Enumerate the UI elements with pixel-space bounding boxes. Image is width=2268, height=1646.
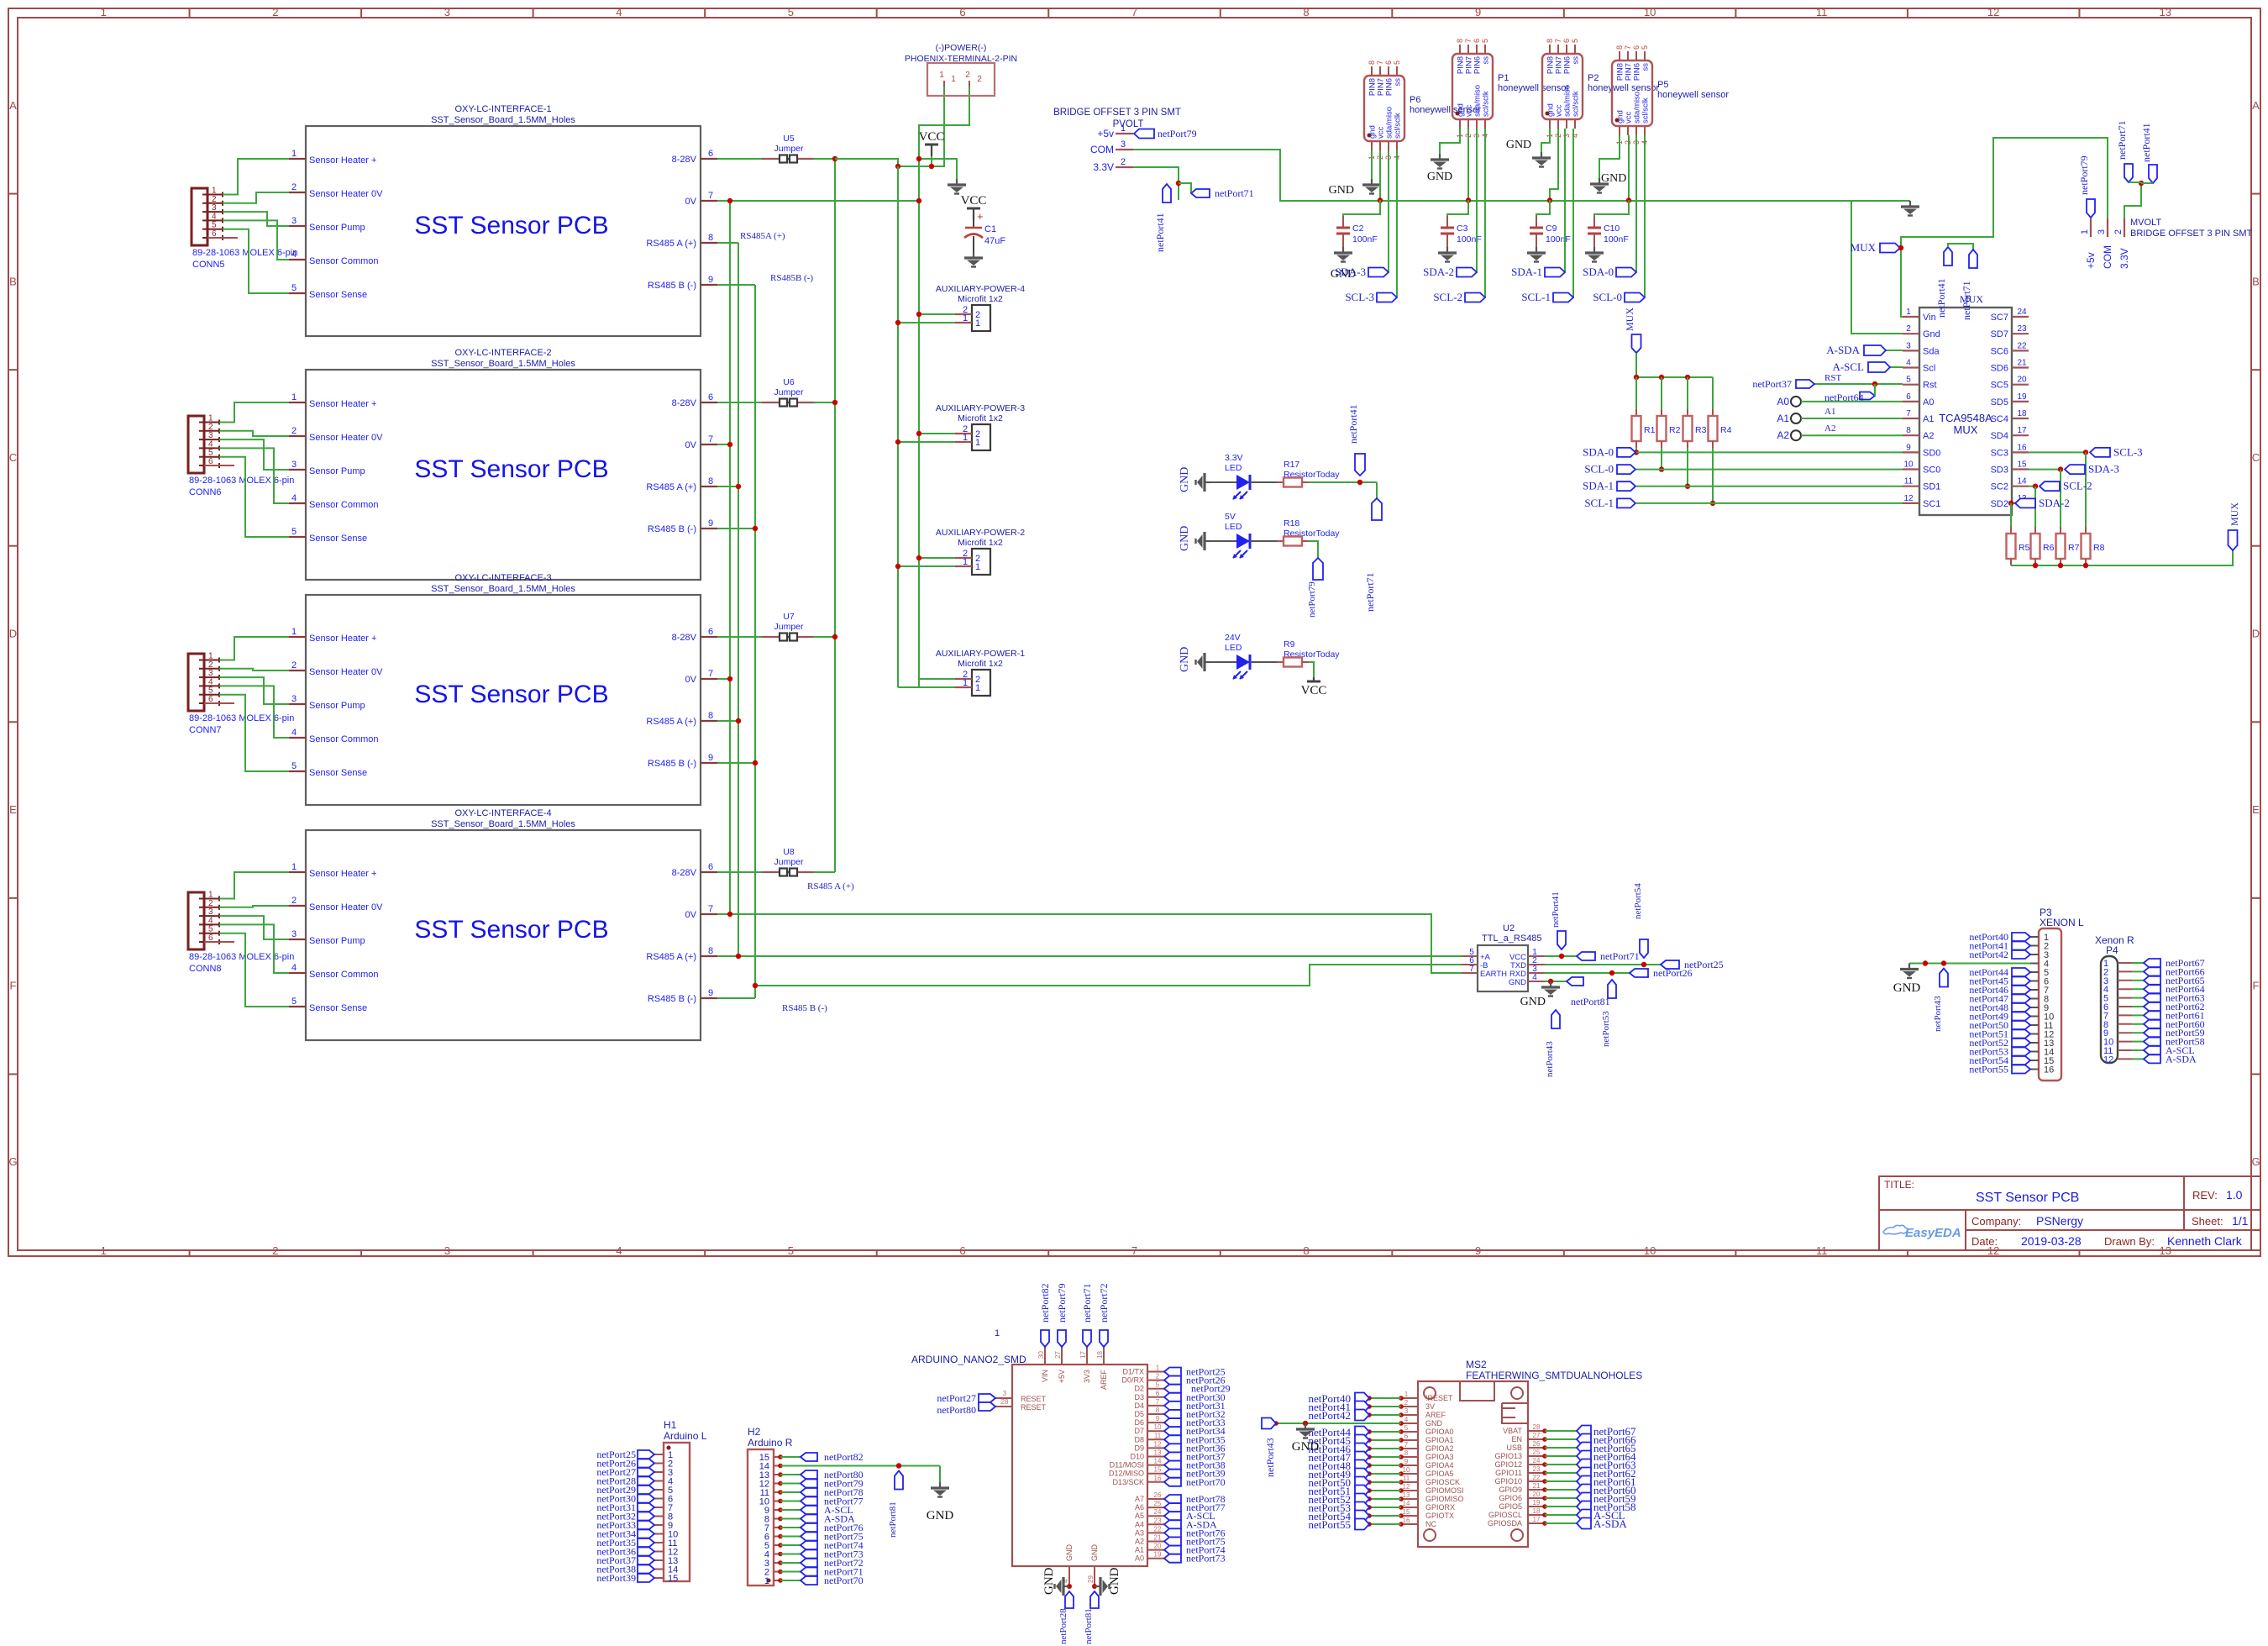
svg-text:5: 5	[788, 1244, 794, 1257]
svg-text:SD4: SD4	[1991, 431, 2008, 441]
net flag SCL-3	[1377, 293, 1397, 302]
H1 pin 12 netPort36	[654, 1551, 664, 1553]
svg-text:26: 26	[1533, 1440, 1541, 1448]
P3 pin 14	[2030, 1051, 2039, 1053]
featherwing pin 6 GPIOA1	[1401, 1439, 1418, 1441]
svg-text:7: 7	[708, 191, 713, 201]
wire P6 gnd	[1371, 150, 1373, 179]
svg-text:47uF: 47uF	[984, 236, 1005, 246]
svg-text:18: 18	[1533, 1507, 1541, 1515]
pin circle A0	[1791, 397, 1801, 407]
svg-text:6: 6	[708, 392, 713, 402]
ground nano 29	[1095, 1577, 1110, 1596]
junction RS485B SST2	[753, 526, 758, 531]
H2 pin 15	[774, 1456, 780, 1458]
svg-text:U7: U7	[783, 612, 795, 622]
svg-text:8: 8	[708, 233, 713, 243]
nano pin 6 D3	[1147, 1396, 1164, 1398]
pin 8 RS485 A (+)	[701, 955, 717, 957]
junction GND	[1548, 979, 1553, 984]
featherwing pin 18 GPIOSCL	[1528, 1514, 1545, 1516]
svg-text:6: 6	[708, 862, 713, 872]
svg-text:netPort81: netPort81	[888, 1501, 898, 1538]
svg-text:1/1: 1/1	[2232, 1214, 2249, 1228]
svg-text:GND: GND	[1329, 184, 1354, 197]
wire row SDA-1 to TCA	[1636, 486, 1903, 487]
connector CONN8 molex 6-pin	[188, 892, 204, 949]
svg-text:20: 20	[1533, 1491, 1541, 1498]
svg-text:netPort55: netPort55	[1308, 1518, 1351, 1531]
svg-text:23: 23	[1533, 1465, 1541, 1473]
svg-text:SST Sensor PCB: SST Sensor PCB	[1976, 1191, 2079, 1205]
wire RS485B SST3	[717, 762, 755, 764]
svg-text:SCL-1: SCL-1	[1521, 291, 1551, 303]
pin 6 8-28V	[701, 636, 717, 638]
svg-text:Sensor Heater +: Sensor Heater +	[309, 155, 376, 166]
net flag MUX feeding pullups	[1632, 334, 1641, 353]
svg-text:D: D	[2252, 628, 2260, 640]
wire cap C10 to rail	[1594, 200, 1629, 216]
H1 pin 13 netPort37	[654, 1559, 664, 1561]
U2 pin 4 GND	[1528, 981, 1545, 982]
wire P3 pin4 ground	[1909, 963, 2030, 965]
P3 pin 15	[2030, 1060, 2039, 1061]
P3 pin 7	[2030, 989, 2039, 991]
wire pulldown of SCL-0	[1661, 448, 1662, 470]
wire conn pin3 to Sensor Pump	[219, 677, 289, 704]
svg-text:Sensor Pump: Sensor Pump	[309, 466, 365, 476]
svg-text:SCL-2: SCL-2	[2063, 480, 2092, 492]
svg-text:A3: A3	[1135, 1528, 1144, 1537]
svg-text:Jumper: Jumper	[774, 622, 804, 632]
svg-text:2: 2	[272, 6, 278, 18]
wire VCC rail down to aux pins 1	[897, 166, 899, 687]
svg-text:A-SDA: A-SDA	[1826, 344, 1860, 356]
nano pin 8 D5	[1147, 1413, 1164, 1415]
P4 pin 2	[2118, 970, 2132, 972]
svg-text:RS485 A (+): RS485 A (+)	[646, 239, 696, 249]
svg-text:5: 5	[788, 6, 794, 18]
H1 pin 5 netPort29	[654, 1489, 664, 1491]
svg-text:89-28-1063 MOLEX 6-pin: 89-28-1063 MOLEX 6-pin	[192, 248, 297, 258]
svg-text:CONN8: CONN8	[189, 964, 222, 974]
svg-text:D11/MOSI: D11/MOSI	[1110, 1461, 1144, 1470]
svg-text:netPort41: netPort41	[1935, 278, 1947, 318]
svg-text:8-28V: 8-28V	[672, 868, 697, 878]
H2 pin 14	[774, 1465, 780, 1467]
nano pin 20 A1	[1147, 1549, 1164, 1551]
junction SCL-0	[1659, 466, 1664, 471]
wire pulldown SCL-2	[2034, 486, 2036, 534]
svg-text:1: 1	[1906, 308, 1911, 317]
svg-text:SCL-1: SCL-1	[1584, 497, 1614, 509]
svg-text:9: 9	[1906, 443, 1911, 452]
svg-text:VBAT: VBAT	[1503, 1427, 1522, 1435]
svg-text:9: 9	[708, 988, 713, 998]
svg-text:GPIOSCL: GPIOSCL	[1488, 1511, 1522, 1519]
nano top pin 17 3V3	[1086, 1347, 1088, 1365]
svg-text:D1/TX: D1/TX	[1122, 1368, 1144, 1376]
svg-text:30: 30	[1037, 1351, 1045, 1359]
svg-text:P1: P1	[1498, 73, 1509, 83]
svg-text:8: 8	[1368, 60, 1376, 65]
svg-text:U6: U6	[783, 377, 795, 387]
svg-text:D8: D8	[1134, 1435, 1144, 1444]
featherwing pin 14 GPIORX	[1401, 1507, 1418, 1508]
svg-text:2: 2	[1121, 157, 1126, 167]
svg-text:F: F	[10, 980, 17, 992]
svg-text:VIN: VIN	[1041, 1370, 1049, 1382]
wire H2 pin14 to GND	[780, 1465, 940, 1467]
junction netPort81	[896, 1463, 901, 1468]
svg-text:R3: R3	[1695, 425, 1707, 435]
H2 pin 4	[774, 1554, 780, 1555]
TCA pin 13 SD2	[2012, 502, 2029, 504]
svg-text:PVOLT: PVOLT	[1113, 119, 1144, 129]
svg-text:1: 1	[975, 318, 980, 329]
svg-text:ss: ss	[1572, 56, 1581, 65]
wire conn pin1 to Sensor Heater +	[219, 637, 289, 660]
svg-text:COM: COM	[1090, 144, 1114, 155]
nano pin 2 D0/RX	[1147, 1380, 1164, 1381]
svg-text:12: 12	[1154, 1440, 1162, 1448]
svg-text:A-SDA: A-SDA	[2166, 1053, 2197, 1065]
P3 pin 12	[2030, 1033, 2039, 1035]
wire COM to sensors rail	[1133, 150, 1910, 201]
svg-text:AREF: AREF	[1100, 1370, 1108, 1391]
RS485B rail	[754, 285, 756, 998]
H1 pin 10 netPort34	[654, 1533, 664, 1535]
featherwing pin 22 GPIO10	[1528, 1480, 1545, 1482]
svg-text:GPIOSDA: GPIOSDA	[1488, 1519, 1522, 1528]
svg-text:D12/MISO: D12/MISO	[1109, 1470, 1144, 1478]
svg-text:OXY-LC-INTERFACE-4: OXY-LC-INTERFACE-4	[454, 808, 551, 818]
featherwing pin 20 GPIO6	[1528, 1497, 1545, 1499]
wire 8-28V to jumper U5	[717, 158, 762, 160]
svg-text:netPort27: netPort27	[937, 1392, 976, 1404]
junction SDA-0	[1634, 450, 1639, 455]
svg-text:ss: ss	[1482, 56, 1491, 65]
pin 7 0V	[701, 678, 717, 680]
svg-text:C10: C10	[1604, 223, 1620, 234]
U2 pin 6 -B	[1462, 964, 1478, 965]
svg-text:4: 4	[291, 963, 297, 973]
svg-text:scl/sclk: scl/sclk	[1482, 91, 1491, 117]
svg-text:D13/SCK: D13/SCK	[1112, 1478, 1144, 1486]
svg-text:GND: GND	[1065, 1544, 1074, 1562]
featherwing pin 2 3V	[1401, 1406, 1418, 1407]
featherwing pin 5 GPIOA0	[1401, 1431, 1418, 1433]
junction 0V GND rail	[916, 198, 921, 203]
svg-text:1: 1	[291, 149, 297, 159]
svg-text:21: 21	[1533, 1482, 1541, 1490]
connector P1 honeywell sensor	[1452, 54, 1493, 119]
svg-text:OXY-LC-INTERFACE-1: OXY-LC-INTERFACE-1	[454, 104, 551, 114]
wire GND stub to ground	[919, 159, 957, 179]
svg-text:B: B	[2252, 275, 2260, 287]
nano pin 19 A0	[1147, 1558, 1164, 1559]
svg-text:11: 11	[1904, 477, 1914, 486]
svg-text:10: 10	[1903, 460, 1914, 470]
ground H2	[931, 1482, 949, 1497]
svg-text:16: 16	[2044, 1065, 2054, 1075]
capacitor C1 47uF	[973, 208, 974, 220]
TCA pin 15 SD3	[2012, 468, 2029, 470]
svg-text:BRIDGE OFFSET 3 PIN SMT: BRIDGE OFFSET 3 PIN SMT	[2130, 229, 2253, 239]
svg-text:4: 4	[1906, 359, 1911, 368]
svg-text:P2: P2	[1588, 73, 1599, 83]
svg-text:Sensor Pump: Sensor Pump	[309, 223, 365, 233]
svg-text:6: 6	[1404, 1433, 1409, 1440]
ground P2	[1532, 152, 1551, 167]
svg-text:netPort71: netPort71	[1364, 572, 1376, 612]
svg-text:GND: GND	[1425, 1419, 1443, 1428]
svg-text:A: A	[2252, 99, 2260, 112]
wire MVOLT COM to TCA Vin	[1901, 138, 2108, 317]
svg-text:scl/sclk: scl/sclk	[1572, 91, 1581, 117]
net flag SCL-2	[2040, 481, 2060, 491]
featherwing pin 15 GPIOTX	[1401, 1515, 1418, 1517]
svg-text:SDA-3: SDA-3	[1335, 266, 1366, 278]
svg-text:2: 2	[1404, 1399, 1409, 1407]
junction netPort43	[1941, 960, 1946, 965]
svg-text:22: 22	[1533, 1474, 1541, 1481]
svg-text:1: 1	[963, 678, 968, 688]
svg-text:RS485B (-): RS485B (-)	[770, 273, 813, 283]
wire aux pin2	[919, 557, 955, 559]
svg-text:10: 10	[1403, 1466, 1410, 1474]
TCA pin 4 Scl	[1903, 366, 1919, 368]
svg-text:honeywell sensor: honeywell sensor	[1498, 83, 1569, 93]
wire pulldown of SDA-0	[1635, 448, 1637, 452]
svg-text:GND: GND	[1893, 981, 1921, 995]
svg-text:A2: A2	[1135, 1538, 1144, 1546]
svg-text:2: 2	[291, 660, 297, 670]
power symbol VCC at phoenix	[931, 155, 932, 166]
svg-text:ARDUINO_NANO2_SMD: ARDUINO_NANO2_SMD	[911, 1354, 1026, 1365]
svg-text:SDA-1: SDA-1	[1583, 480, 1614, 492]
svg-text:5: 5	[1571, 39, 1579, 43]
wire SCL-0	[1644, 135, 1646, 297]
svg-text:SD7: SD7	[1991, 329, 2008, 339]
svg-text:netPort71: netPort71	[1961, 281, 1972, 320]
net flag netPort26 at U2	[1630, 969, 1648, 977]
svg-text:COM: COM	[2102, 245, 2113, 269]
svg-text:14: 14	[1403, 1500, 1410, 1507]
svg-text:3: 3	[1121, 139, 1126, 150]
svg-text:8: 8	[1546, 39, 1554, 43]
junction VCC symbol	[929, 164, 934, 169]
svg-text:SC4: SC4	[1991, 414, 2008, 424]
wire 3.3V to netports	[1133, 167, 1179, 200]
net flag netPort28	[1065, 1591, 1074, 1608]
svg-text:XENON L: XENON L	[2040, 917, 2084, 928]
svg-text:Sensor Heater +: Sensor Heater +	[309, 399, 376, 409]
svg-text:3: 3	[1906, 341, 1911, 350]
svg-text:25: 25	[1154, 1500, 1162, 1507]
connector CONN7 molex 6-pin	[188, 654, 204, 711]
pin 3 Sensor Pump	[289, 225, 306, 227]
svg-text:honeywell sensor: honeywell sensor	[1657, 90, 1729, 100]
pullup top rail	[1636, 376, 1713, 378]
ground symbol TCA COM	[1901, 201, 1919, 216]
U2 pin 2 TXD	[1528, 964, 1545, 965]
U2 pin 7 EARTH	[1462, 972, 1478, 974]
nano pin 15 D12/MISO	[1147, 1473, 1164, 1475]
wire SCL-2	[1484, 129, 1486, 297]
junction VCC	[895, 164, 900, 169]
svg-text:SCL-0: SCL-0	[1584, 463, 1614, 476]
svg-text:1: 1	[975, 438, 980, 448]
svg-text:VCC: VCC	[961, 194, 987, 208]
ground for C1	[964, 252, 983, 267]
wire conn pin2 to Sensor Heater 0V	[219, 669, 289, 670]
svg-text:18: 18	[1096, 1351, 1104, 1359]
wire 8-28V to jumper U7	[717, 636, 762, 638]
svg-text:GPIO11: GPIO11	[1495, 1469, 1522, 1477]
pin 9 RS485 B (-)	[701, 762, 717, 764]
svg-text:16: 16	[1154, 1475, 1162, 1482]
ground U2	[1541, 981, 1560, 997]
junction	[1547, 197, 1552, 202]
wire rail to R3	[1687, 377, 1688, 409]
svg-text:22: 22	[2017, 341, 2027, 350]
nano pin 5 D2	[1147, 1388, 1164, 1390]
wire RS485A SST2	[717, 486, 738, 487]
svg-text:RS485 B (-): RS485 B (-)	[782, 1003, 827, 1013]
P4 pin 6	[2118, 1006, 2132, 1007]
svg-text:netPort71: netPort71	[1081, 1283, 1093, 1323]
wire VCC net U5 to phoenix pin1	[835, 159, 898, 166]
svg-text:Microfit 1x2: Microfit 1x2	[958, 659, 1003, 669]
svg-text:11: 11	[1403, 1475, 1410, 1482]
wire conn pin4 to Sensor Common	[219, 686, 289, 738]
wire A1	[1801, 418, 1903, 419]
svg-text:1: 1	[1156, 1365, 1160, 1372]
junction aux pin2	[916, 431, 921, 436]
svg-text:GND: GND	[1427, 171, 1452, 183]
svg-text:AUXILIARY-POWER-2: AUXILIARY-POWER-2	[936, 528, 1025, 538]
wire netPort64 to Rst	[1874, 384, 1876, 396]
svg-text:RESET: RESET	[1021, 1395, 1047, 1403]
junction VCC	[1559, 954, 1564, 959]
svg-text:1: 1	[101, 6, 107, 18]
nano pin 16 D13/SCK	[1147, 1481, 1164, 1483]
P4 pin 9	[2118, 1032, 2132, 1033]
wire	[2129, 181, 2141, 183]
svg-text:C9: C9	[1546, 223, 1557, 234]
junction aux pin2	[916, 312, 921, 317]
featherwing pin 10 GPIOA5	[1401, 1473, 1418, 1475]
svg-text:P5: P5	[1657, 80, 1668, 90]
junction 0V SST3	[727, 676, 732, 681]
svg-text:LED: LED	[1225, 463, 1242, 473]
TCA pin 9 SD0	[1903, 451, 1919, 453]
svg-text:19: 19	[1154, 1551, 1162, 1559]
resistor R2	[1661, 409, 1662, 416]
svg-text:D3: D3	[1134, 1393, 1144, 1401]
resistor R1	[1635, 409, 1637, 416]
svg-text:netPort55: netPort55	[1969, 1064, 2008, 1075]
wire U2 GND	[1545, 981, 1567, 982]
net flag netPort41	[1355, 454, 1365, 476]
P4 pin 10	[2118, 1041, 2132, 1043]
featherwing pin 21 GPIO9	[1528, 1489, 1545, 1491]
H1 pin 6 netPort30	[654, 1498, 664, 1500]
pin 2 Sensor Heater 0V	[289, 192, 306, 193]
svg-text:Kenneth Clark: Kenneth Clark	[2167, 1234, 2243, 1248]
resistor R4	[1712, 409, 1714, 416]
nano pin 23 A4	[1147, 1523, 1164, 1525]
svg-text:3: 3	[444, 1244, 450, 1257]
P3 pin 6	[2030, 981, 2039, 982]
svg-text:GND: GND	[1179, 467, 1191, 492]
H1 pin 9 netPort33	[654, 1524, 664, 1526]
net flag netPort64	[1860, 392, 1875, 400]
H1 pin 4 netPort28	[654, 1480, 664, 1482]
junction gnd	[1923, 960, 1928, 965]
svg-text:OXY-LC-INTERFACE-3: OXY-LC-INTERFACE-3	[454, 573, 551, 583]
svg-text:7: 7	[708, 669, 713, 679]
svg-text:7: 7	[1906, 409, 1911, 418]
svg-text:1: 1	[291, 627, 297, 637]
svg-text:AREF: AREF	[1425, 1411, 1446, 1419]
nano pin 25 A6	[1147, 1507, 1164, 1508]
svg-text:3: 3	[291, 929, 297, 939]
wire SDA-0	[1635, 135, 1637, 272]
wire MVOLT 3.3V to netports	[2124, 183, 2141, 218]
TCA pin 10 SC0	[1903, 468, 1919, 470]
svg-text:2: 2	[1906, 324, 1911, 334]
svg-text:A0: A0	[1135, 1554, 1144, 1563]
svg-text:GPIOA1: GPIOA1	[1425, 1436, 1454, 1444]
junction R6 bottom	[2033, 563, 2038, 568]
svg-text:10: 10	[1154, 1423, 1162, 1431]
svg-text:SC6: SC6	[1991, 346, 2008, 356]
svg-text:netPort42: netPort42	[1308, 1409, 1351, 1422]
wire A2	[1801, 434, 1903, 436]
svg-text:Sensor Heater 0V: Sensor Heater 0V	[309, 433, 383, 443]
ground nano 4	[1055, 1577, 1070, 1596]
svg-text:SST_Sensor_Board_1.5MM_Holes: SST_Sensor_Board_1.5MM_Holes	[431, 819, 575, 829]
net flag netPort71 near TCA	[1969, 250, 1977, 268]
ground P6	[1362, 179, 1381, 194]
pin 5 Sensor Sense	[289, 536, 306, 538]
nano left pin 3 RESET	[995, 1397, 1012, 1399]
svg-text:GND: GND	[1292, 1440, 1320, 1454]
svg-text:netPort79: netPort79	[1056, 1283, 1068, 1323]
junction GND	[916, 156, 921, 161]
RS485A rail	[738, 243, 739, 956]
0V rail	[729, 201, 731, 914]
svg-text:RS485 A (+): RS485 A (+)	[646, 482, 696, 492]
wire 0V SST2	[717, 444, 730, 445]
svg-text:GPIOA4: GPIOA4	[1425, 1461, 1454, 1470]
svg-text:Arduino L: Arduino L	[664, 1430, 707, 1442]
svg-text:A: A	[9, 99, 17, 112]
wire pulldown SDA-2	[2010, 503, 2012, 534]
pin 9 RS485 B (-)	[701, 997, 717, 999]
net flag netPort79	[1313, 558, 1323, 580]
TCA pin 19 SD5	[2012, 401, 2029, 402]
svg-text:A0: A0	[1777, 396, 1789, 408]
svg-text:ss: ss	[1394, 78, 1403, 87]
svg-text:Gnd: Gnd	[1923, 329, 1940, 339]
svg-text:VCC: VCC	[919, 130, 945, 144]
wire SDA-3	[1388, 150, 1389, 272]
wire conn pin4 to Sensor Common	[219, 924, 289, 973]
net flag netPort43 P3	[1940, 969, 1948, 987]
